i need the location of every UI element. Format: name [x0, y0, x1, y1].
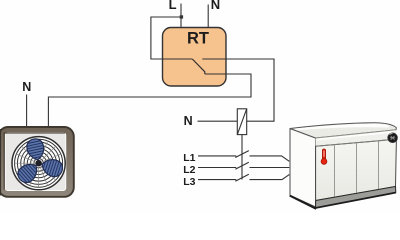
- panel inner shadow: [4, 133, 65, 190]
- heater band highlight: [317, 132, 396, 140]
- guard spokes: [15, 139, 63, 187]
- blade top: [24, 137, 48, 162]
- wire upper throw to coil: [202, 59, 274, 121]
- junction dot: [180, 15, 183, 18]
- heater panel seam 3: [378, 141, 380, 190]
- knob: [388, 133, 398, 143]
- wire N to fan: [26, 95, 28, 129]
- wire L3 to contact: [198, 179, 236, 181]
- svg-text:N: N: [22, 80, 31, 94]
- svg-text:L2: L2: [183, 164, 195, 176]
- heater lid front edge: [316, 130, 397, 138]
- fan inner panel: [5, 133, 66, 191]
- svg-text:L3: L3: [183, 176, 195, 188]
- svg-text:L: L: [169, 0, 177, 12]
- heater base left edge: [290, 196, 317, 209]
- heater lid highlight: [294, 124, 390, 131]
- heater lid top: [290, 123, 396, 138]
- wire L3 to heater: [250, 175, 290, 180]
- wire L1 to heater: [250, 156, 290, 161]
- wire lower throw to fan: [48, 74, 251, 128]
- heater front band: [316, 130, 397, 147]
- heater panel seam 1: [334, 145, 336, 198]
- heater left face: [290, 129, 316, 208]
- fan frame: [0, 127, 74, 197]
- heater front face: [316, 139, 397, 200]
- heater panel seam 2: [356, 143, 358, 194]
- wire L down to RT: [180, 4, 182, 28]
- heater plinth bottom edge: [316, 193, 396, 208]
- guard rings: [12, 137, 65, 190]
- wire branch from L: [151, 17, 192, 59]
- contact blade L1: [235, 151, 249, 158]
- thermostat RT body: [163, 28, 227, 87]
- thermometer: [322, 149, 325, 160]
- heater unit: [290, 123, 398, 209]
- frame left border sliver: [0, 129, 1, 196]
- svg-text:N: N: [211, 0, 220, 12]
- wire L2 to contact: [198, 167, 236, 169]
- contact blade L3: [235, 174, 249, 181]
- fan unit M1: [0, 127, 74, 197]
- switch blade in RT: [192, 59, 205, 74]
- contact blade L2: [235, 162, 249, 169]
- blade right: [39, 155, 65, 181]
- svg-text:L1: L1: [183, 152, 195, 164]
- blade left: [14, 158, 43, 187]
- wire N down to RT: [207, 5, 209, 28]
- svg-text:RT: RT: [187, 30, 209, 48]
- heater band bottom line: [316, 139, 397, 146]
- wire L1 to contact: [198, 155, 236, 157]
- wire L2 to heater: [250, 167, 290, 169]
- fan hub: [35, 160, 42, 167]
- heater plinth front: [316, 187, 396, 208]
- svg-text:N: N: [184, 114, 193, 128]
- contactor link: [241, 135, 243, 180]
- wire N to coil: [198, 120, 238, 122]
- contactor coil K1: [237, 109, 246, 135]
